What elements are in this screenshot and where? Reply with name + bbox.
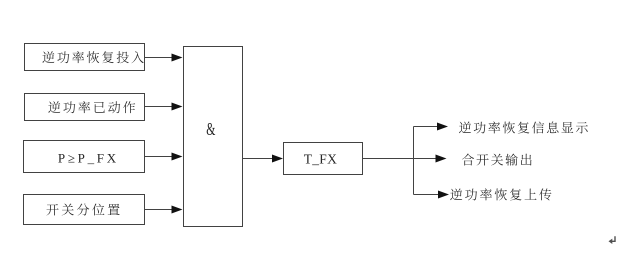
svg-text:P≥P_FX: P≥P_FX xyxy=(58,151,119,166)
svg-text:&: & xyxy=(206,121,215,140)
svg-text:T_FX: T_FX xyxy=(304,152,337,167)
